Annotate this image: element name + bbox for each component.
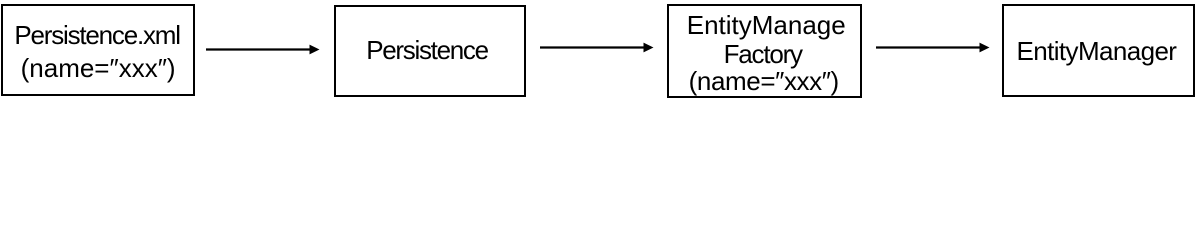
box Persistence xyxy=(334,5,526,97)
box Persistence.xml xyxy=(1,4,195,96)
arrow 3 xyxy=(874,41,991,54)
box EntityManager xyxy=(1002,4,1194,97)
arrow 1 xyxy=(204,43,321,56)
arrow 2 xyxy=(538,41,655,54)
box EntityManageFactory xyxy=(667,4,862,98)
